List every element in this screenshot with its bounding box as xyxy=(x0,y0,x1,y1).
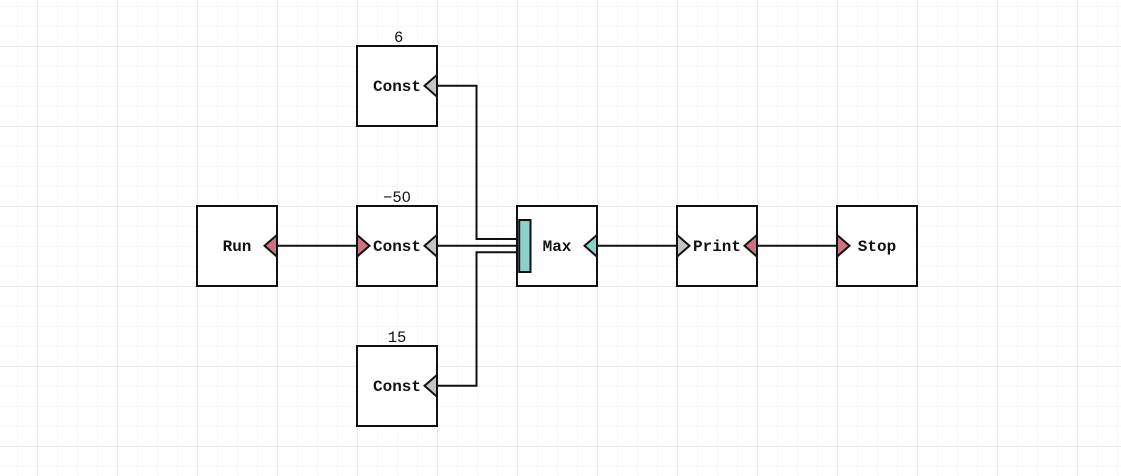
node Const -50 xyxy=(357,206,437,286)
svg-text:Run: Run xyxy=(223,238,252,256)
wire Const(-50) to Max middle input xyxy=(437,245,519,247)
svg-text:Stop: Stop xyxy=(858,238,896,256)
svg-text:15: 15 xyxy=(388,329,407,347)
node Const 6 xyxy=(357,46,437,126)
port Max multi-input bar (teal) xyxy=(519,220,530,272)
port Const(15) output (gray) xyxy=(425,375,438,397)
port Print input (gray) xyxy=(677,235,690,257)
label value 6 xyxy=(394,29,403,47)
port Stop input (red) xyxy=(837,235,850,257)
port Const(-50) output (gray) xyxy=(425,235,438,257)
svg-text:Const: Const xyxy=(373,78,421,96)
node Run xyxy=(197,206,277,286)
node Max xyxy=(517,206,597,286)
svg-text:Const: Const xyxy=(373,378,421,396)
port Const(6) output (gray) xyxy=(425,75,438,97)
wire Print to Stop xyxy=(757,245,837,247)
svg-text:Max: Max xyxy=(543,238,572,256)
port Print output (red) xyxy=(745,235,758,257)
node Print xyxy=(677,206,757,286)
label value 15 xyxy=(388,329,407,347)
wire Run to Const(-50) xyxy=(277,245,357,247)
wire Max to Print xyxy=(597,245,677,247)
node Const 15 xyxy=(357,346,437,426)
wire Const(15) to Max bottom input xyxy=(437,252,519,386)
port Max output (teal) xyxy=(585,235,598,257)
svg-text:6: 6 xyxy=(394,29,403,47)
label value -50 xyxy=(383,189,411,207)
svg-text:Print: Print xyxy=(693,238,741,256)
svg-text:Const: Const xyxy=(373,238,421,256)
port Const(-50) input (red) xyxy=(357,235,370,257)
node Stop xyxy=(837,206,917,286)
wire Const(6) to Max top input xyxy=(437,86,519,239)
port Run output (red) xyxy=(265,235,278,257)
